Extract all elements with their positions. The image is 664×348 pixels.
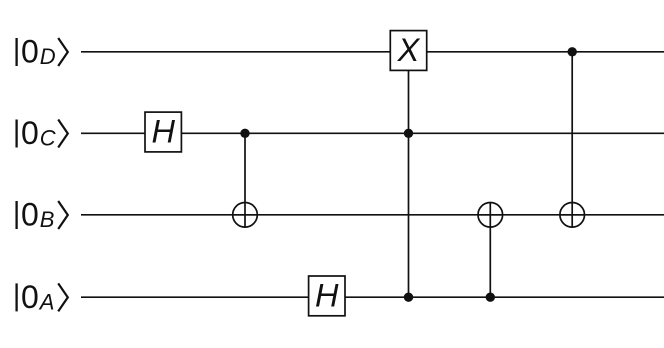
- cnot target on qB (cnot1): [233, 203, 258, 228]
- svg-text:C: C: [40, 126, 56, 151]
- wire cnot2 vertical B to A: [489, 202, 491, 297]
- svg-text:B: B: [40, 207, 55, 232]
- cnot target on qB (cnot3): [560, 203, 585, 228]
- svg-text:0: 0: [21, 279, 39, 315]
- svg-text:0: 0: [21, 197, 39, 233]
- gate H2 on qA: [309, 276, 345, 316]
- wire qC: [81, 132, 664, 134]
- svg-text:0: 0: [21, 115, 39, 151]
- gate X target box on qD (ccx): [390, 31, 426, 71]
- control dot on qC (ccx): [404, 129, 413, 138]
- wire qB: [81, 214, 664, 216]
- wire ccx vertical D to A: [408, 70, 410, 297]
- svg-text:A: A: [38, 289, 55, 314]
- wire qD: [81, 51, 664, 53]
- node label ket0D: [17, 34, 68, 70]
- node label ket0A: [17, 279, 68, 315]
- svg-text:H: H: [151, 114, 175, 150]
- control dot on qD (cnot3): [568, 47, 577, 56]
- gate H1 on qC: [145, 112, 181, 152]
- control dot on qA (ccx): [404, 293, 413, 302]
- control dot on qA (cnot2): [486, 293, 495, 302]
- svg-text:X: X: [397, 32, 421, 68]
- wire cnot3 vertical D to B: [571, 52, 573, 227]
- wire cnot1 vertical C to B: [244, 133, 246, 227]
- cnot target on qB (cnot2): [478, 203, 503, 228]
- node label ket0B: [17, 197, 68, 233]
- node label ket0C: [17, 115, 68, 151]
- wire qA: [81, 296, 664, 298]
- control dot on qC (cnot1): [240, 129, 249, 138]
- svg-text:0: 0: [21, 34, 39, 70]
- svg-text:H: H: [315, 277, 339, 313]
- svg-text:D: D: [40, 44, 56, 69]
